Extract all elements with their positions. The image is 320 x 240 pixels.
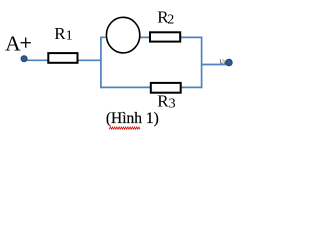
meter circle (ammeter) xyxy=(106,17,139,53)
svg-text:R1: R1 xyxy=(54,24,72,44)
svg-text:A: A xyxy=(5,32,21,56)
spellcheck squiggle under Hinh xyxy=(109,127,140,129)
resistor R1 xyxy=(48,53,77,63)
node B terminal dot xyxy=(226,59,232,65)
resistor R2 xyxy=(150,32,180,41)
resistor R3 xyxy=(151,83,181,93)
svg-text:R3: R3 xyxy=(157,91,175,111)
svg-text:(Hình 1): (Hình 1) xyxy=(106,110,159,127)
label + (polarity sign) xyxy=(21,38,31,48)
wire: left branch vertical xyxy=(101,37,106,88)
node A terminal dot xyxy=(21,56,27,62)
svg-text:R2: R2 xyxy=(157,8,174,28)
wire: right junction to node B xyxy=(202,64,229,66)
wire: circle to R2 and on to right junction xyxy=(140,36,202,38)
wire: bottom branch through R3 xyxy=(100,86,202,88)
wire: node A to R1 and on to left junction xyxy=(24,59,101,61)
svg-text:Ua: Ua xyxy=(220,59,227,65)
wire: right branch vertical xyxy=(201,37,203,89)
